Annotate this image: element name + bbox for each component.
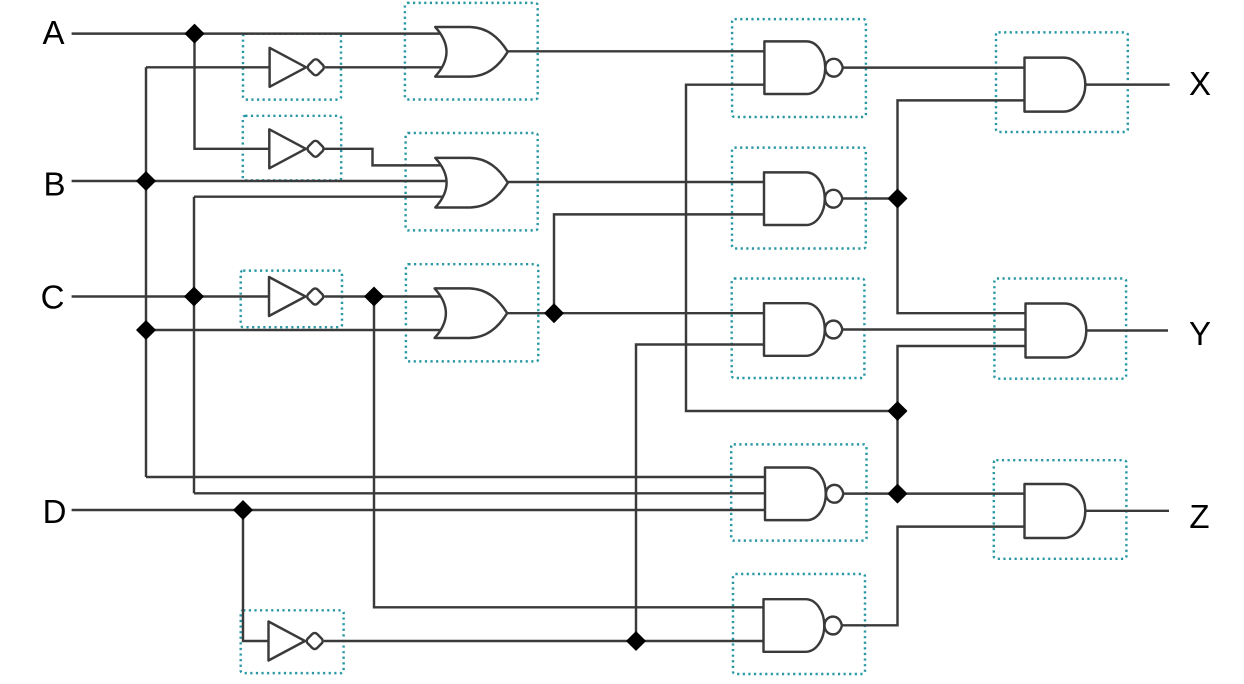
- wire node C branch to NAND4 input 2: [194, 492, 766, 494]
- wire OR2 output to NAND2 input 1: [508, 181, 766, 183]
- and-gate AND2 (Y): [1026, 304, 1087, 358]
- svg-text:Z: Z: [1189, 498, 1209, 535]
- wire NOT3 output to OR3 input 1: [324, 295, 443, 297]
- inverter NOT3: [269, 277, 325, 316]
- junction node cross link: [888, 402, 907, 421]
- and-gate AND1 (X): [1025, 58, 1086, 112]
- wire node D branch down to NOT4 input: [243, 510, 270, 641]
- wire node C vertical branch: [193, 197, 195, 494]
- svg-text:Y: Y: [1189, 315, 1211, 352]
- wire input B to OR2 input 2: [72, 180, 447, 182]
- wire NOT2 output to OR2 input 1: [325, 149, 445, 166]
- junction node NOT4 output: [627, 632, 646, 651]
- svg-text:D: D: [43, 493, 67, 530]
- nand-gate NAND1: [764, 41, 842, 94]
- junction node D: [234, 501, 253, 520]
- wire node NAND2-out branch down to AND2 input 1: [898, 199, 1029, 314]
- wire node B branch to OR3 input 2: [146, 329, 443, 331]
- wire NAND1 output to AND1 input 1: [843, 66, 1026, 68]
- inverter NOT2 enclosure box: [243, 116, 341, 181]
- nand-gate NAND1 enclosure box: [732, 19, 866, 117]
- nand-gate NAND4 enclosure box: [731, 444, 866, 540]
- wire cross link node to NAND1 input 2: [686, 85, 898, 411]
- nand-gate NAND3: [764, 303, 842, 356]
- nand-gate NAND3 enclosure box: [732, 279, 865, 379]
- nand-gate NAND4: [765, 468, 843, 521]
- or-gate OR3 enclosure box: [406, 264, 538, 361]
- wire NAND2 output to node: [842, 197, 897, 199]
- or-gate OR2 enclosure box: [406, 133, 538, 230]
- or-gate OR3: [435, 288, 508, 338]
- inverter NOT1: [270, 48, 326, 87]
- or-gate OR2: [435, 158, 508, 208]
- wire input A to OR1 input 1: [72, 32, 443, 34]
- svg-text:X: X: [1189, 65, 1211, 102]
- or-gate OR1 enclosure box: [405, 3, 538, 100]
- wire NOT4 output to NAND5 input 2: [324, 640, 766, 642]
- wire node A branch down to NOT2 input: [195, 34, 272, 149]
- nand-gate NAND2: [764, 172, 842, 225]
- and-gate AND3 (Z): [1025, 484, 1086, 538]
- inverter NOT2: [269, 129, 325, 168]
- wire AND3 output to Z: [1085, 510, 1169, 512]
- inverter NOT4: [269, 622, 325, 661]
- nand-gate NAND5: [764, 599, 842, 652]
- wire AND2 output to Y: [1086, 329, 1168, 331]
- wire node B vertical branch: [145, 67, 147, 477]
- wire NAND3 output to AND2 input 2: [842, 328, 1028, 330]
- junction node B: [137, 172, 156, 191]
- nand-gate NAND2 enclosure box: [732, 148, 866, 249]
- wire node C branch to OR2 input 3: [194, 195, 444, 197]
- wire input D to NAND4 input 3: [72, 509, 766, 511]
- wire OR1 output to NAND1 input 1: [508, 50, 766, 52]
- and-gate AND3 enclosure box: [994, 460, 1127, 559]
- svg-text:B: B: [43, 166, 65, 203]
- svg-text:C: C: [41, 279, 65, 316]
- and-gate AND2 enclosure box: [994, 279, 1126, 379]
- junction node B lower branch: [137, 321, 156, 340]
- wire node NOT3-out branch to NAND5 input 1: [374, 297, 766, 608]
- svg-text:A: A: [42, 14, 64, 51]
- wire NAND5 output to AND3 input 2: [842, 527, 1026, 626]
- wire input C to NOT3 input: [72, 295, 271, 297]
- or-gate OR1: [435, 27, 508, 77]
- junction node NAND4 output: [888, 484, 907, 503]
- wire NAND4 output to AND3 input 1: [843, 492, 1026, 494]
- inverter NOT3 enclosure box: [241, 271, 342, 328]
- and-gate AND1 enclosure box: [996, 32, 1128, 132]
- inverter NOT4 enclosure box: [241, 610, 344, 673]
- junction node NOT3 output: [365, 287, 384, 306]
- wire node NAND2-out branch up to AND1 input 2: [898, 100, 1027, 198]
- junction node C: [185, 287, 204, 306]
- junction node NAND2 output: [888, 189, 907, 208]
- wire OR3 output to NAND3 input 1: [507, 312, 766, 314]
- wire node B branch to NOT1 input: [146, 66, 271, 68]
- inverter NOT1 enclosure box: [243, 34, 341, 100]
- junction node OR3 output: [545, 304, 564, 323]
- wire AND1 output to X: [1085, 83, 1170, 85]
- wire node NOT4-out branch to NAND3 input 2: [636, 345, 766, 642]
- wire NOT1 output to OR1 input 2: [325, 66, 443, 68]
- junction node A: [185, 24, 204, 43]
- wire node OR3-out branch to NAND2 input 2: [554, 214, 766, 313]
- wire AND2 input 3 from NAND4 output node: [898, 346, 1029, 494]
- wire node B branch to NAND4 input 1: [146, 476, 766, 478]
- nand-gate NAND5 enclosure box: [733, 574, 865, 674]
